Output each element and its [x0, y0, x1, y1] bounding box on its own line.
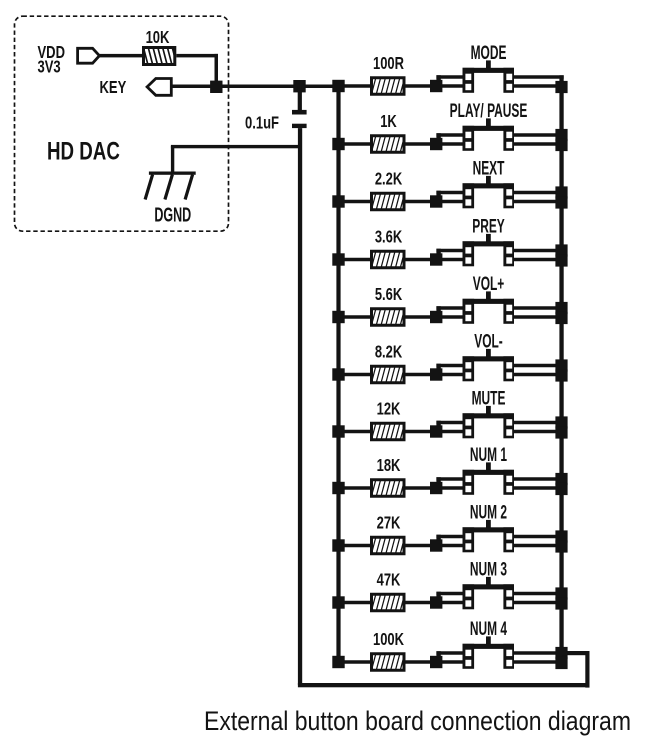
- wire KEY net to left bus: [171, 85, 338, 89]
- svg-text:3.6K: 3.6K: [375, 227, 403, 247]
- wire resistor R6 to switch S6: [406, 373, 431, 377]
- pushbutton S11 NUM 4: [463, 636, 515, 668]
- resistor R7 12K: [368, 419, 408, 444]
- resistor R9 27K: [368, 533, 408, 558]
- wire left bus to resistor R11: [344, 660, 371, 664]
- pushbutton S3 NEXT: [463, 176, 515, 208]
- wire left bus to resistor R1: [344, 84, 371, 88]
- wire ground return: right extension, right vertical, bottom horizontal: [298, 651, 590, 688]
- node switch S8 left pin junction: [430, 477, 442, 494]
- wire switch S9 right rails: [514, 535, 560, 548]
- wire resistor R8 to switch S8: [406, 486, 431, 490]
- node row 6 junctions on right bus: [555, 359, 567, 381]
- resistor R11 100K: [368, 650, 408, 675]
- pushbutton S4 PREY: [463, 234, 515, 266]
- wire resistor R7 to switch S7: [406, 430, 431, 434]
- wire resistor R11 to switch S11: [406, 660, 431, 664]
- resistor R8 18K: [368, 476, 408, 501]
- node row 7 junctions on right bus: [555, 416, 567, 438]
- node switch S5 left pin junction: [430, 306, 442, 323]
- node switch S7 left pin junction: [430, 421, 442, 438]
- node row 9 junctions on right bus: [555, 530, 567, 552]
- pin VDD connector: [78, 48, 100, 63]
- pushbutton S10 NUM 3: [463, 577, 515, 609]
- wire switch S6 left rails: [436, 364, 462, 377]
- wire left bus to resistor R3: [344, 200, 371, 204]
- node row 2 junction on left bus: [332, 138, 344, 150]
- node switch S4 left pin junction: [430, 249, 442, 266]
- resistor R1 100R: [368, 74, 408, 99]
- svg-text:DGND: DGND: [154, 203, 191, 226]
- wire switch S2 right rails: [514, 133, 560, 146]
- HD DAC dashed outline box: [15, 16, 229, 231]
- ground DGND symbol: [145, 172, 196, 200]
- node row 1 junction on right bus: [555, 81, 567, 93]
- wire left bus to resistor R4: [344, 258, 371, 262]
- node row 8 junction on left bus: [332, 482, 344, 494]
- pushbutton S5 VOL+: [463, 291, 515, 323]
- wire left bus to resistor R10: [344, 601, 371, 605]
- wire left bus to resistor R5: [344, 315, 371, 319]
- wire switch S2 left rails: [436, 133, 462, 146]
- wire resistor R4 to switch S4: [406, 258, 431, 262]
- label VDD 3V3: [38, 43, 65, 77]
- node switch S10 left pin junction: [430, 592, 442, 609]
- node row 6 junction on left bus: [332, 368, 344, 380]
- capacitor C1 0.1uF: [292, 86, 307, 128]
- pushbutton S1 MODE: [463, 60, 515, 92]
- wire switch S5 left rails: [436, 306, 462, 319]
- wire switch S7 left rails: [436, 421, 462, 434]
- wire resistor 10K to KEY node: [176, 54, 218, 58]
- wire resistor R2 to switch S2: [406, 142, 431, 146]
- node row 11 junctions on right bus: [555, 647, 567, 669]
- svg-text:47K: 47K: [377, 570, 401, 590]
- wire switch S5 right rails: [514, 306, 560, 319]
- wire switch S6 right rails: [514, 364, 560, 377]
- svg-text:5.6K: 5.6K: [375, 285, 403, 305]
- node row 5 junction on left bus: [332, 311, 344, 323]
- wire switch S7 right rails: [514, 421, 560, 434]
- node row 3 junctions on right bus: [555, 186, 567, 208]
- resistor R6 8.2K: [368, 362, 408, 387]
- node row 5 junctions on right bus: [555, 302, 567, 324]
- svg-text:KEY: KEY: [100, 78, 127, 97]
- wire switch S4 right rails: [514, 249, 560, 262]
- svg-text:100K: 100K: [373, 630, 405, 650]
- wire resistor R1 to switch S1: [406, 84, 431, 88]
- resistor 10K: [140, 44, 180, 69]
- node switch S1 left pin junction: [430, 75, 442, 92]
- svg-text:10K: 10K: [146, 28, 171, 47]
- node KEY junction: [210, 81, 222, 93]
- node capacitor top junction: [293, 80, 305, 92]
- wire left bus to resistor R2: [344, 142, 371, 146]
- svg-text:27K: 27K: [377, 513, 401, 533]
- node row 7 junction on left bus: [332, 425, 344, 437]
- wire switch S3 left rails: [436, 191, 462, 204]
- wire resistor R9 to switch S9: [406, 544, 431, 548]
- svg-text:2.2K: 2.2K: [375, 169, 403, 189]
- resistor R3 2.2K: [368, 189, 408, 214]
- node row 10 junction on left bus: [332, 596, 344, 608]
- node switch S2 left pin junction: [430, 133, 442, 150]
- node row 10 junctions on right bus: [555, 587, 567, 609]
- svg-text:0.1uF: 0.1uF: [245, 114, 279, 133]
- node row 11 junction on left bus: [332, 656, 344, 668]
- pushbutton S7 MUTE: [463, 406, 515, 438]
- node row 4 junction on left bus: [332, 253, 344, 265]
- wire right bus vertical: [559, 75, 563, 668]
- wire switch S8 left rails: [436, 477, 462, 490]
- wire switch S3 right rails: [514, 191, 560, 204]
- node row 2 junctions on right bus: [555, 129, 567, 151]
- svg-text:External button board connecti: External button board connection diagram: [204, 706, 631, 736]
- pushbutton S2 PLAY/ PAUSE: [463, 118, 515, 150]
- wire switch S1 right rails to right bus corner: [514, 75, 564, 88]
- node row 4 junctions on right bus: [555, 244, 567, 266]
- wire left bus to resistor R6: [344, 373, 371, 377]
- wire resistor R5 to switch S5: [406, 315, 431, 319]
- pushbutton S9 NUM 2: [463, 520, 515, 552]
- node row 3 junction on left bus: [332, 195, 344, 207]
- wire switch S9 left rails: [436, 535, 462, 548]
- resistor R5 5.6K: [368, 305, 408, 330]
- wire DGND to ground net: [171, 145, 300, 174]
- node switch S11 left pin junction: [430, 651, 442, 668]
- wire switch S11 left rails: [436, 651, 462, 664]
- node row 9 junction on left bus: [332, 539, 344, 551]
- wire VDD pin to resistor R 10K: [99, 54, 144, 58]
- wire switch S1 left rails: [436, 75, 462, 88]
- node row 1 junction on left bus: [332, 80, 344, 92]
- svg-text:100R: 100R: [373, 54, 404, 74]
- wire switch S10 left rails: [436, 592, 462, 605]
- pin KEY connector: [147, 79, 171, 96]
- node switch S6 left pin junction: [430, 364, 442, 381]
- svg-text:3V3: 3V3: [38, 58, 61, 77]
- wire switch S4 left rails: [436, 249, 462, 262]
- wire switch S11 right rails: [514, 651, 560, 664]
- wire left bus to resistor R7: [344, 430, 371, 434]
- svg-text:12K: 12K: [377, 399, 401, 419]
- resistor R2 1K: [368, 132, 408, 157]
- wire resistor R3 to switch S3: [406, 200, 431, 204]
- svg-text:18K: 18K: [377, 456, 401, 476]
- wire switch S8 right rails: [514, 477, 560, 490]
- wire switch S10 right rails: [514, 592, 560, 605]
- node switch S3 left pin junction: [430, 191, 442, 208]
- wire left bus to resistor R9: [344, 544, 371, 548]
- svg-text:HD DAC: HD DAC: [47, 137, 120, 165]
- wire left bus to resistor R8: [344, 486, 371, 490]
- pushbutton S8 NUM 1: [463, 462, 515, 494]
- svg-text:1K: 1K: [380, 112, 397, 132]
- wire capacitor bottom / ground return (left vertical): [298, 128, 302, 685]
- wire left bus vertical: [336, 85, 340, 669]
- pushbutton S6 VOL-: [463, 349, 515, 381]
- svg-text:8.2K: 8.2K: [375, 342, 403, 362]
- wire resistor R10 to switch S10: [406, 601, 431, 605]
- resistor R4 3.6K: [368, 247, 408, 272]
- resistor R10 47K: [368, 590, 408, 615]
- node switch S9 left pin junction: [430, 535, 442, 552]
- node row 8 junctions on right bus: [555, 473, 567, 495]
